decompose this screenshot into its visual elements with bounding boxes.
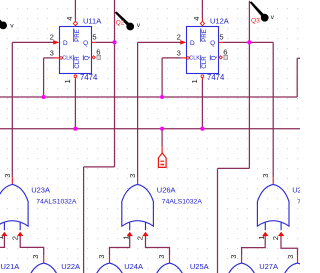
- wire U25A output to U26A input 2: [146, 236, 170, 256]
- or-gate U22A: [28, 256, 60, 273]
- wire U12A D input horizontal: [138, 41, 181, 43]
- svg-text:U25A: U25A: [190, 262, 209, 271]
- wire U11A CLK horizontal: [44, 57, 55, 59]
- probe Q3: [250, 1, 275, 21]
- svg-text:5: 5: [92, 32, 96, 41]
- svg-text:Q: Q: [211, 55, 218, 60]
- wire U28A output vertical: [272, 42, 274, 177]
- svg-text:7474: 7474: [207, 73, 225, 82]
- wire Q3 down to bottom edge: [217, 168, 219, 273]
- svg-text:74ALS1032A: 74ALS1032A: [36, 198, 77, 205]
- svg-text:4: 4: [192, 16, 201, 20]
- U11A pin 3 clock bubble: [60, 57, 63, 60]
- svg-text:U12A: U12A: [210, 17, 229, 26]
- wire Q3 to U28A branch: [249, 41, 273, 43]
- svg-text:PRE: PRE: [201, 29, 208, 42]
- svg-text:D: D: [63, 40, 68, 47]
- wire U26A output to U12A D: [137, 42, 139, 177]
- junction U11A CLR on net B: [73, 127, 77, 131]
- svg-text:74ALS1032A: 74ALS1032A: [162, 198, 203, 205]
- U12A pin 3 clock bubble: [187, 57, 190, 60]
- wire U24A output to U26A input 1: [110, 236, 130, 256]
- U12A pin 4 stub: [201, 19, 203, 22]
- wire U12A PRE up to top edge: [201, 0, 203, 19]
- or-gate U28A: [257, 177, 289, 236]
- wire U11A CLK down to clock net: [43, 58, 45, 97]
- svg-text:1: 1: [257, 236, 266, 240]
- wire U28A input 2 to right gate: [281, 236, 298, 256]
- U11A pin 2 arrow: [53, 40, 59, 45]
- wire U12A CLK down to clock net: [161, 58, 163, 97]
- or-gate U27A: [226, 256, 258, 273]
- svg-text:2: 2: [136, 236, 145, 240]
- U12A pin 6 diamond: [219, 56, 222, 59]
- junction U12A CLR on net B: [200, 127, 204, 131]
- or-gate U25A: [154, 256, 186, 273]
- svg-text:3: 3: [50, 48, 54, 57]
- wire Q3 jog horizontal: [218, 167, 250, 169]
- svg-text:1: 1: [190, 79, 199, 83]
- wire net A right riser: [296, 58, 298, 97]
- svg-text:1: 1: [0, 236, 5, 240]
- svg-text:U28A: U28A: [292, 185, 300, 194]
- or-gate U23A: [0, 177, 28, 236]
- svg-text:U27A: U27A: [259, 262, 278, 271]
- svg-text:Q: Q: [210, 40, 215, 47]
- svg-text:3: 3: [157, 255, 166, 259]
- wire net B clear bus: [0, 128, 300, 130]
- digital ground symbol: [158, 146, 166, 167]
- wire U11A CLR down to net B: [74, 80, 76, 129]
- wire U27A output to U28A input 1: [242, 236, 266, 256]
- or-gate U26A: [122, 177, 154, 236]
- wire Q2 jog horizontal: [84, 166, 115, 168]
- U11A pin 6 diamond: [92, 56, 95, 59]
- svg-text:1: 1: [63, 79, 72, 83]
- junction ground branch on net B: [160, 127, 164, 131]
- U12A pin 1 stub: [201, 78, 203, 80]
- wire Q2 down to bottom edge: [83, 167, 85, 273]
- svg-text:PRE: PRE: [74, 29, 81, 42]
- U12A pin 2 arrow: [180, 40, 186, 45]
- svg-text:U23A: U23A: [31, 185, 50, 194]
- svg-text:2: 2: [271, 236, 280, 240]
- svg-text:U11A: U11A: [83, 17, 101, 26]
- wire U11A D input (net from U23A output): [12, 41, 53, 43]
- svg-text:3: 3: [286, 255, 295, 259]
- svg-text:v: v: [10, 22, 14, 29]
- U11A pin 4 stub: [74, 19, 76, 22]
- svg-text:Q: Q: [83, 40, 88, 47]
- wire U23A input 1 exit left: [0, 236, 4, 248]
- svg-text:CLK: CLK: [189, 56, 200, 62]
- svg-text:v: v: [137, 22, 141, 29]
- svg-text:Q: Q: [84, 55, 91, 60]
- probe Q2: [115, 11, 141, 30]
- wire U22A output to U23A input 2: [20, 236, 44, 256]
- U11A pin 6 marker box: [97, 55, 101, 59]
- junction U12A Q / Q3: [247, 40, 251, 44]
- wire Q3 vertical: [248, 1, 250, 169]
- junction U11A Q / Q2: [112, 40, 116, 44]
- svg-text:U22A: U22A: [61, 262, 80, 271]
- svg-text:CLR: CLR: [201, 56, 208, 69]
- svg-text:7474: 7474: [80, 73, 98, 82]
- wire U12A Q to junction: [223, 41, 250, 43]
- svg-text:3: 3: [177, 48, 181, 57]
- junction U11A CLK on net A: [42, 95, 46, 99]
- svg-text:4: 4: [65, 16, 74, 20]
- wire U12A CLK horizontal: [162, 57, 181, 59]
- wire Q2 vertical: [114, 0, 116, 167]
- wire net A clock bus: [0, 96, 297, 98]
- or-gate right bottom: [282, 256, 314, 273]
- wire U11A PRE up to top edge: [74, 0, 76, 19]
- svg-text:2: 2: [177, 33, 181, 42]
- or-gate U24A: [94, 256, 126, 273]
- U11A pin 4 diamond: [73, 21, 77, 25]
- U12A pin 3 stub: [181, 57, 186, 59]
- svg-text:3: 3: [97, 255, 106, 259]
- svg-text:CLK: CLK: [62, 56, 73, 62]
- wire net A exit right: [297, 57, 300, 59]
- U12A pin 6 marker box: [224, 55, 228, 59]
- svg-text:v: v: [271, 14, 275, 21]
- probe V1: [0, 11, 14, 29]
- svg-text:74ALS1032A: 74ALS1032A: [297, 198, 300, 205]
- flip-flop U11A: [60, 27, 92, 74]
- wire vertical U23A output to U11A D: [11, 42, 13, 177]
- svg-text:U26A: U26A: [157, 185, 176, 194]
- U12A pin 1 bubble: [201, 75, 204, 78]
- svg-text:U21A: U21A: [1, 262, 20, 271]
- svg-text:3: 3: [261, 174, 270, 178]
- U12A pin 5 stub: [219, 41, 223, 43]
- svg-text:5: 5: [219, 32, 223, 41]
- svg-text:Q2: Q2: [116, 19, 125, 26]
- wire U11A Q to junction: [96, 41, 115, 43]
- U11A pin 5 stub: [92, 41, 96, 43]
- svg-text:3: 3: [3, 174, 12, 178]
- svg-text:1: 1: [121, 236, 130, 240]
- wire net B to ground symbol: [161, 129, 163, 147]
- U12A pin 4 diamond: [200, 21, 204, 25]
- svg-text:Q3: Q3: [251, 18, 260, 25]
- U11A pin 1 stub: [74, 78, 76, 80]
- svg-text:2: 2: [50, 33, 54, 42]
- svg-text:2: 2: [10, 236, 19, 240]
- svg-text:3: 3: [31, 255, 40, 259]
- junction U12A CLK on net A: [160, 95, 164, 99]
- svg-text:3: 3: [229, 255, 238, 259]
- svg-text:U24A: U24A: [124, 262, 143, 271]
- svg-text:3: 3: [128, 174, 137, 178]
- U11A pin 3 stub: [54, 57, 59, 59]
- wire U12A CLR down to net B: [201, 80, 203, 129]
- svg-text:CLR: CLR: [74, 56, 81, 69]
- U11A pin 1 bubble: [74, 75, 77, 78]
- svg-text:D: D: [190, 40, 195, 47]
- flip-flop U12A: [187, 27, 219, 74]
